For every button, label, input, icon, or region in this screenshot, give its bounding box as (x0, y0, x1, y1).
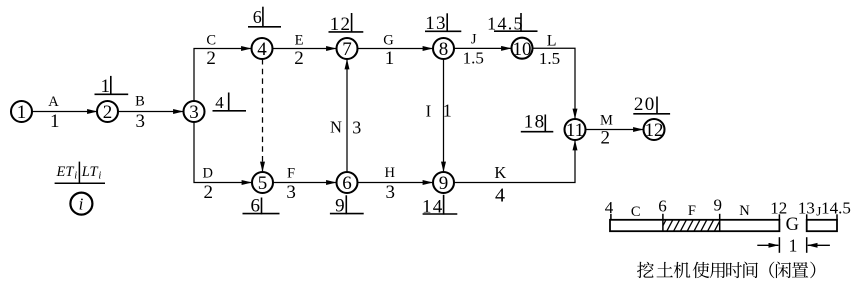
svg-text:A: A (48, 94, 59, 110)
svg-text:3: 3 (135, 111, 145, 132)
svg-text:2: 2 (103, 102, 113, 123)
svg-text:4: 4 (215, 93, 224, 112)
svg-text:D: D (203, 166, 213, 182)
svg-text:E: E (295, 32, 304, 48)
svg-text:B: B (135, 93, 145, 109)
svg-text:2: 2 (601, 128, 611, 149)
svg-text:N: N (739, 203, 750, 219)
svg-text:1: 1 (385, 48, 395, 69)
svg-text:3: 3 (286, 182, 296, 203)
svg-text:11: 11 (566, 120, 584, 141)
svg-text:J: J (816, 204, 821, 219)
svg-text:L: L (547, 32, 557, 49)
svg-text:1.5: 1.5 (463, 49, 484, 68)
svg-text:4: 4 (495, 185, 505, 207)
svg-text:5: 5 (258, 173, 268, 194)
svg-text:2: 2 (206, 48, 216, 69)
svg-text:12: 12 (645, 120, 664, 141)
svg-text:3: 3 (352, 118, 361, 138)
svg-text:6: 6 (342, 173, 352, 194)
svg-text:F: F (287, 166, 295, 182)
svg-text:10: 10 (513, 39, 532, 60)
svg-text:ET: ET (56, 164, 75, 180)
svg-text:C: C (206, 32, 216, 48)
svg-text:I: I (426, 101, 432, 120)
svg-text:20: 20 (634, 94, 656, 115)
svg-text:6: 6 (658, 196, 667, 215)
svg-text:4: 4 (605, 198, 614, 217)
svg-text:14.5: 14.5 (821, 198, 851, 217)
svg-text:3: 3 (189, 102, 199, 123)
svg-text:LT: LT (81, 164, 99, 180)
svg-text:9: 9 (439, 173, 449, 194)
svg-text:7: 7 (342, 39, 352, 60)
svg-text:3: 3 (385, 182, 395, 203)
svg-text:N: N (330, 118, 342, 137)
svg-text:1: 1 (789, 236, 798, 256)
svg-text:6: 6 (253, 7, 262, 27)
svg-text:1: 1 (17, 102, 27, 123)
svg-text:1: 1 (443, 100, 452, 120)
svg-text:i: i (98, 171, 101, 182)
svg-text:i: i (79, 194, 84, 213)
svg-text:8: 8 (439, 39, 449, 60)
svg-text:4: 4 (257, 39, 267, 60)
svg-text:2: 2 (294, 48, 304, 69)
svg-text:H: H (385, 165, 396, 181)
svg-text:J: J (471, 32, 477, 48)
svg-text:G: G (383, 32, 394, 48)
svg-text:1.5: 1.5 (539, 49, 560, 68)
svg-text:i: i (74, 171, 77, 182)
svg-text:C: C (631, 204, 641, 220)
svg-text:M: M (600, 113, 613, 129)
svg-text:2: 2 (204, 182, 214, 203)
svg-text:G: G (786, 215, 799, 235)
svg-text:13: 13 (798, 198, 815, 217)
svg-text:K: K (494, 163, 506, 182)
svg-text:14.5: 14.5 (487, 13, 524, 33)
svg-text:F: F (688, 203, 696, 219)
svg-text:1: 1 (50, 111, 60, 132)
svg-text:9: 9 (713, 196, 722, 215)
svg-text:18: 18 (524, 112, 546, 133)
